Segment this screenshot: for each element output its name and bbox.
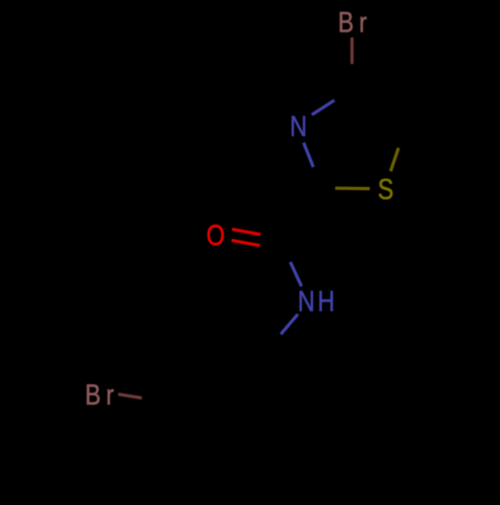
wire S1-C2 half-bond bbox=[335, 187, 370, 191]
wire Br2-C5' half-bond bbox=[118, 394, 142, 398]
wire Br1-C4 half-bond bbox=[350, 38, 353, 65]
svg-text:N: N bbox=[290, 110, 307, 143]
wire S1-C5 half-bond bbox=[391, 148, 399, 171]
svg-text:r: r bbox=[359, 6, 367, 39]
wire NH-C6 half-bond bbox=[290, 262, 301, 286]
svg-text:H: H bbox=[318, 285, 335, 318]
wire C6=O double bond lower half-line bbox=[232, 240, 261, 245]
svg-text:O: O bbox=[206, 219, 224, 252]
wire N3-C2 half-bond bbox=[304, 143, 314, 167]
svg-text:B: B bbox=[85, 378, 101, 411]
svg-text:r: r bbox=[106, 378, 114, 411]
bromine Br1 label (thiazole C4 substituent) bbox=[338, 6, 367, 39]
svg-text:B: B bbox=[338, 6, 354, 39]
svg-text:S: S bbox=[378, 173, 394, 206]
wire NH-C1' half-bond bbox=[281, 314, 298, 334]
bromine Br2 label (phenyl meta substituent) bbox=[85, 378, 114, 411]
wire N3-C4 half-bond bbox=[312, 100, 335, 115]
wire C6=O double bond upper half-line bbox=[232, 229, 261, 234]
svg-text:N: N bbox=[298, 285, 315, 318]
